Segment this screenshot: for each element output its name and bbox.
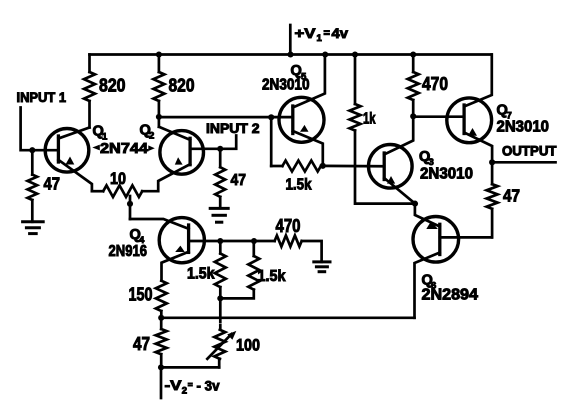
resistor 1.5k (Q5 emitter) (271, 165, 282, 168)
wire Q4 collector (189, 240, 275, 243)
wire Q4 emitter lead (162, 252, 189, 281)
node Q5 base junction (268, 114, 274, 120)
transistor Q2 emitter arrow (175, 157, 183, 164)
wire 1.5k junction down (219, 298, 222, 317)
node V2 junction (158, 364, 164, 370)
node Q5 emitter junction (320, 163, 326, 169)
resistor 470 (Q7 base) (412, 55, 415, 73)
wire input 1 lead (21, 108, 59, 151)
potentiometer arrow (207, 334, 231, 359)
svg-text:2N916: 2N916 (109, 243, 148, 260)
wire Q2 collector to Q5 base (159, 116, 293, 119)
resistor 470 (Q4 collector) (275, 236, 302, 247)
svg-text:47: 47 (133, 334, 150, 354)
svg-text:-V: -V (165, 377, 183, 393)
transistor Q6 base bar (438, 224, 441, 254)
node rail junction dots (156, 51, 162, 57)
wire OUTPUT (492, 161, 555, 164)
resistor 10 (emitter balance) (92, 190, 103, 193)
svg-text:2: 2 (182, 386, 187, 397)
svg-text:2N2894: 2N2894 (422, 287, 479, 304)
node output junction (489, 159, 495, 165)
transistor Q4 circle (159, 218, 204, 263)
svg-text:1k: 1k (363, 111, 376, 128)
transistor Q1 emitter arrow (66, 157, 75, 165)
svg-text:OUTPUT: OUTPUT (502, 144, 557, 159)
resistor 1k (354, 55, 357, 105)
wire Q2 emitter lead (158, 164, 190, 191)
ground below input 1 resistor (23, 220, 44, 223)
transistor Q1 base bar (57, 136, 60, 162)
transistor Q6 circle (413, 217, 459, 263)
svg-text:=: = (188, 380, 193, 390)
node Q4 collector junctions (217, 238, 223, 244)
node Q7 base junction (410, 113, 416, 119)
resistor 47 (input 1) (31, 150, 34, 174)
wire 10 center tap (129, 196, 132, 219)
transistor Q2 circle (160, 131, 204, 175)
transistor Q3 emitter arrow (387, 176, 395, 184)
wire V2 bottom (161, 366, 219, 369)
svg-text:1: 1 (317, 33, 323, 44)
svg-text:470: 470 (422, 74, 448, 94)
ground below input 2 resistor (210, 207, 228, 210)
wire pot feed (dashed) (219, 319, 222, 331)
wire Q7 emitter lead (464, 133, 492, 163)
wire bottom rail (161, 316, 414, 319)
wire Q6 emitter lead (415, 204, 440, 227)
node input1/47 junction (29, 147, 35, 153)
transistor Q5 base bar (291, 106, 294, 134)
wire Q5 base drop (270, 117, 273, 166)
resistor 47 (input 2) (219, 149, 222, 167)
svg-text:820: 820 (99, 76, 126, 96)
node tap junction (127, 201, 133, 207)
wire Q6 base lead (415, 253, 440, 318)
svg-text:=: = (324, 28, 330, 40)
wire Q3 base (323, 165, 384, 168)
resistor 47 (output) (491, 162, 494, 184)
transistor Q7 emitter arrow (468, 128, 477, 136)
svg-text:+V: +V (295, 25, 317, 41)
transistor Q5 circle (279, 97, 324, 142)
svg-text:100: 100 (236, 336, 260, 355)
wire Q4 base (130, 219, 189, 229)
transistor Q6 emitter arrow (426, 221, 438, 229)
wire Q2 collector lead (159, 127, 190, 140)
wire Q5 emitter lead (293, 131, 323, 166)
resistor 1.5k right (252, 241, 255, 256)
svg-text:150: 150 (129, 284, 153, 305)
wire Q5 collector lead (293, 55, 325, 108)
transistor Q1 circle (45, 129, 89, 173)
node input2/47 junction (217, 146, 223, 152)
node Q2 collector (156, 114, 162, 120)
svg-text:2N744: 2N744 (100, 141, 148, 157)
transistor Q3 circle (369, 145, 413, 189)
wire Q7 collector lead (464, 55, 492, 107)
resistor 150 (156, 281, 167, 311)
wire Q3 collector lead (384, 116, 413, 154)
ground below 470 (314, 260, 330, 263)
potentiometer 100 (214, 330, 225, 359)
wire V+ top rail (90, 53, 492, 56)
svg-text:2: 2 (149, 131, 154, 142)
resistor 1.5k left (219, 241, 222, 254)
transistor Q3 base bar (383, 153, 386, 180)
transistor Q4 emitter arrow (175, 246, 185, 252)
wire Q1 collector lead (58, 128, 89, 139)
svg-text:820: 820 (169, 76, 195, 96)
svg-text:2N3010: 2N3010 (420, 166, 473, 183)
svg-text:2N3010: 2N3010 (497, 119, 550, 136)
resistor 47 (bottom) (160, 318, 163, 329)
transistor Q2 base bar (188, 138, 191, 164)
wire Q1 emitter lead (58, 160, 92, 191)
node bottom rail left junction (158, 315, 164, 321)
svg-text:INPUT 2: INPUT 2 (206, 121, 260, 136)
transistor Q4 base bar (187, 225, 190, 252)
svg-text:- 3v: - 3v (197, 378, 220, 394)
wire Q7 base (413, 115, 464, 118)
transistor Q7 base bar (462, 105, 465, 134)
svg-text:47: 47 (44, 174, 61, 194)
svg-text:INPUT 1: INPUT 1 (17, 90, 67, 105)
transistor Q7 circle (447, 98, 492, 143)
wire Q2 base / input 2 (190, 136, 236, 149)
svg-text:47: 47 (231, 172, 247, 189)
svg-text:4v: 4v (332, 25, 349, 41)
resistor 820 (Q2 collector) (158, 55, 161, 73)
svg-text:2N3010: 2N3010 (262, 77, 310, 94)
svg-text:470: 470 (276, 216, 301, 236)
node 1.5k bottom junction (217, 295, 223, 301)
wire Q3 emitter lead (384, 178, 415, 204)
node Q3 emitter junction (412, 201, 418, 207)
wire +V1 supply tick (289, 25, 292, 55)
transistor Q5 emitter arrow (300, 125, 309, 132)
svg-text:1.5k: 1.5k (187, 266, 215, 283)
svg-text:10: 10 (110, 169, 126, 188)
svg-text:47: 47 (503, 186, 520, 206)
svg-text:1.5k: 1.5k (286, 177, 312, 194)
svg-text:1.5k: 1.5k (258, 268, 286, 285)
resistor 820 (Q1 collector) (88, 55, 91, 73)
wire Q6 collector (440, 236, 492, 239)
